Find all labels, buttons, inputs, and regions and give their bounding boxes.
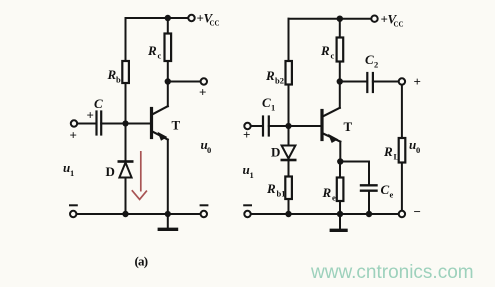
svg-text:2: 2 bbox=[374, 60, 378, 70]
svg-text:+: + bbox=[199, 85, 206, 100]
svg-text:R: R bbox=[320, 43, 330, 58]
svg-text:c: c bbox=[158, 51, 162, 61]
svg-text:b1: b1 bbox=[277, 189, 286, 199]
svg-text:R: R bbox=[107, 67, 117, 82]
svg-text:e: e bbox=[332, 193, 336, 203]
svg-text:C: C bbox=[365, 52, 374, 67]
svg-text:CC: CC bbox=[210, 20, 220, 28]
svg-text:1: 1 bbox=[271, 103, 275, 113]
svg-text:+: + bbox=[87, 108, 94, 123]
svg-text:R: R bbox=[265, 68, 275, 83]
svg-text:R: R bbox=[266, 181, 276, 196]
svg-text:www.cntronics.com: www.cntronics.com bbox=[310, 262, 474, 283]
svg-text:L: L bbox=[394, 152, 400, 162]
svg-text:D: D bbox=[106, 164, 115, 179]
svg-text:0: 0 bbox=[416, 145, 420, 155]
svg-text:+: + bbox=[414, 74, 421, 89]
svg-text:b2: b2 bbox=[275, 76, 284, 86]
svg-text:T: T bbox=[344, 119, 353, 134]
svg-text:R: R bbox=[147, 43, 157, 58]
svg-text:R: R bbox=[383, 144, 393, 159]
svg-text:b: b bbox=[116, 75, 121, 85]
svg-text:C: C bbox=[262, 95, 271, 110]
svg-text:c: c bbox=[331, 51, 335, 61]
svg-text:T: T bbox=[172, 118, 181, 133]
svg-text:0: 0 bbox=[207, 145, 211, 155]
svg-text:1: 1 bbox=[250, 170, 254, 180]
svg-text:(a): (a) bbox=[135, 254, 148, 269]
svg-text:e: e bbox=[390, 190, 394, 200]
svg-text:R: R bbox=[322, 185, 332, 200]
svg-text:1: 1 bbox=[70, 168, 74, 178]
svg-text:C: C bbox=[381, 182, 390, 197]
svg-text:CC: CC bbox=[394, 21, 404, 29]
svg-text:−: − bbox=[414, 204, 421, 219]
svg-text:D: D bbox=[271, 145, 280, 160]
svg-text:C: C bbox=[94, 96, 103, 111]
svg-text:+: + bbox=[243, 127, 250, 142]
svg-text:+: + bbox=[70, 128, 77, 143]
